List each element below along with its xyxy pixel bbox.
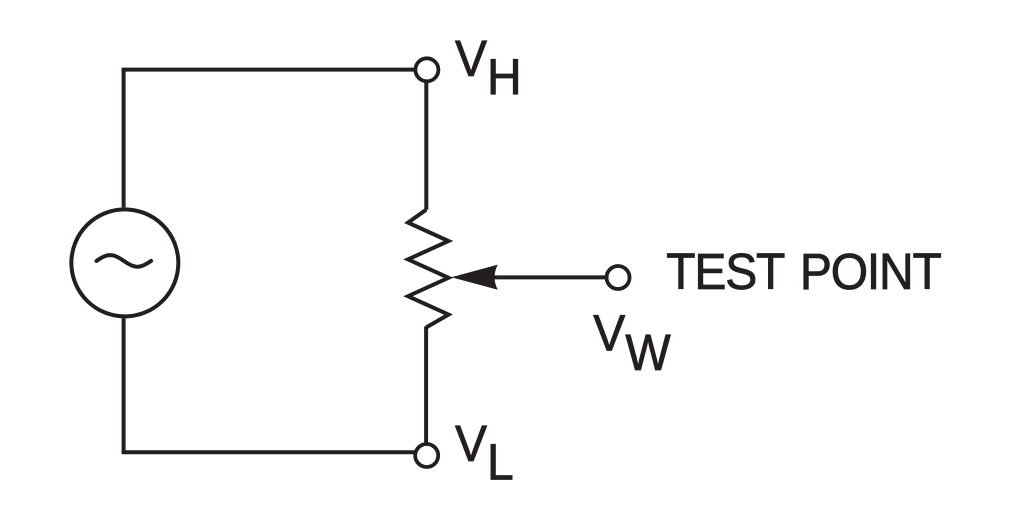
AC source V1 circle — [71, 209, 178, 316]
wire top horizontal — [124, 68, 427, 70]
label VW — [593, 305, 671, 381]
svg-text:TEST POINT: TEST POINT — [666, 244, 941, 301]
wire bottom horizontal — [124, 452, 427, 454]
terminal node VL — [415, 444, 438, 467]
wire right vertical from resistor bottom to VL terminal — [424, 327, 428, 456]
wire wiper to test point terminal — [493, 275, 618, 279]
wire left vertical upper — [122, 69, 126, 208]
label VH — [455, 31, 522, 106]
wire left vertical lower — [122, 318, 126, 453]
AC source sine symbol — [97, 255, 152, 267]
resistor R1 potentiometer zigzag element — [408, 210, 449, 328]
terminal node VH — [415, 58, 438, 81]
wire right vertical from VH terminal to resistor top — [424, 70, 428, 210]
wiper arrow of potentiometer — [451, 265, 498, 290]
label TEST POINT — [666, 244, 941, 301]
label VL — [455, 416, 514, 491]
terminal node TEST POINT VW — [607, 266, 630, 289]
